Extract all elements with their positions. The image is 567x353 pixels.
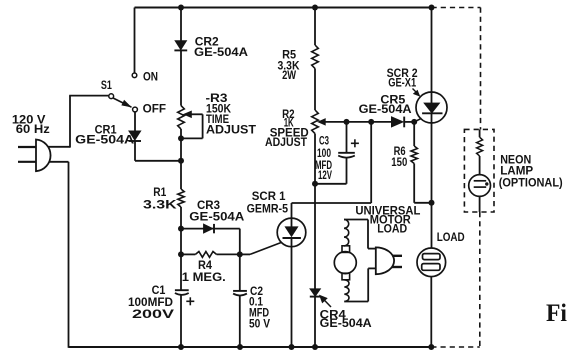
node C2 bottom rail (237, 344, 243, 350)
wire CR3 branch (181, 228, 240, 230)
wire plug top lead (48, 146, 70, 148)
svg-text:GE-504A: GE-504A (320, 316, 372, 330)
AC plug P1 120V (36, 140, 51, 172)
SCR Q1 SCR1 GEMR-5 (277, 218, 306, 247)
switch S1 OFF terminal (133, 107, 138, 112)
svg-text:GE-504A: GE-504A (359, 102, 412, 116)
wire left vertical plug top to S1 (69, 96, 71, 148)
motor plug (376, 247, 394, 274)
node C3 top junction (344, 119, 350, 125)
wire OFF to CR1 (134, 112, 136, 131)
capacitor C2 0.1MFD (233, 290, 247, 292)
svg-text:60 Hz: 60 Hz (16, 122, 50, 136)
svg-text:LOAD: LOAD (377, 221, 407, 235)
svg-text:1 MEG.: 1 MEG. (182, 270, 226, 284)
diode CR5 (391, 117, 403, 128)
R3 wiper loop (191, 113, 203, 115)
wire gate lead to SCR1 (240, 253, 250, 255)
node LOAD bottom rail (428, 344, 434, 350)
switch S1 ON terminal (132, 73, 137, 78)
svg-text:2W: 2W (282, 68, 297, 82)
wire R1 to CR3 node (180, 207, 182, 229)
node CR4 bottom rail (312, 344, 318, 350)
wire gate node to R6 (413, 122, 415, 146)
wire dashed neon to bottom rail (479, 212, 481, 347)
svg-text:3.3K: 3.3K (143, 197, 177, 211)
svg-text:200V: 200V (132, 307, 174, 321)
motor field coil upper (344, 220, 349, 246)
wire junction to R4 node (180, 229, 182, 255)
CR4 leader arrow (322, 298, 331, 307)
node top rail / R5 vertical (312, 5, 318, 11)
svg-text:150: 150 (391, 155, 407, 169)
resistor R6 150 (411, 146, 417, 164)
svg-text:OFF: OFF (143, 101, 166, 115)
wire SCR1 anode horizontal (292, 202, 372, 204)
svg-text:ADJUST: ADJUST (265, 135, 308, 149)
C3 plus sign (351, 142, 359, 144)
motor brush lower (342, 273, 350, 280)
resistor R4 1 MEG (181, 253, 195, 255)
node R2/C3 junction (312, 181, 318, 187)
wire anode riser (370, 122, 372, 203)
potentiometer R3 150K (178, 106, 185, 129)
svg-text:GE-504A: GE-504A (189, 209, 244, 223)
resistor R5 3.3K 2W (312, 45, 319, 69)
plug prong bottom (18, 161, 36, 163)
capacitor C1 100MFD 200V (175, 289, 189, 291)
wire rail to R5 (314, 8, 316, 46)
wire top rail (135, 7, 432, 9)
wire junction to LOAD outlet (431, 203, 433, 248)
wire junction down to CR4 (314, 184, 316, 289)
C1 plus sign (186, 300, 194, 302)
wire CR3 corner down to R4 node (239, 229, 241, 255)
wire R6 bottom (413, 164, 415, 203)
svg-text:ADJUST: ADJUST (206, 122, 257, 136)
wire C3 bottom to R2 vertical (315, 183, 347, 185)
neon lamp NE1 (469, 175, 491, 197)
outlet LOAD (417, 248, 446, 277)
capacitor C3 100MFD 12V (346, 122, 348, 153)
diode CR3 (203, 224, 213, 233)
node SCR2 gate / R6 junction (411, 119, 417, 125)
svg-text:(OPTIONAL): (OPTIONAL) (499, 175, 563, 189)
potentiometer R2 1K (312, 110, 319, 134)
universal motor load - top lead (344, 219, 368, 221)
wire plug bottom lead (49, 161, 69, 163)
motor plug prong bottom (392, 266, 403, 268)
motor bottom lead (344, 301, 368, 303)
node CR3 branch junction (178, 226, 184, 232)
plug prong top (18, 146, 36, 148)
switch S1 pivot terminal (109, 94, 114, 99)
wire ON terminal to top rail (134, 8, 136, 73)
svg-text:50 V: 50 V (249, 316, 270, 330)
wire neon lamp to box bottom (479, 196, 481, 212)
node CR1/main vertical junction (178, 158, 184, 164)
svg-text:ON: ON (143, 69, 158, 83)
SCR Q2 SCR2 GE-X1 (416, 92, 447, 123)
wire speed control line (325, 121, 392, 123)
node R4 branch junction (178, 251, 184, 257)
node anode riser junction (368, 119, 374, 125)
node C1 bottom rail (178, 344, 184, 350)
motor plug prong top (392, 255, 402, 257)
wire R2 bottom to C3 node (314, 134, 316, 184)
motor field coil lower (344, 280, 349, 302)
node top rail / main vertical (178, 5, 184, 11)
wire bottom rail (69, 346, 432, 348)
wire CR5 to SCR2 gate node (404, 121, 414, 123)
node top rail right end (429, 5, 435, 11)
svg-text:Fi: Fi (546, 300, 567, 327)
svg-text:S1: S1 (101, 78, 112, 92)
motor brush upper (342, 246, 350, 253)
wire R4 node to C1 (180, 254, 182, 290)
wire S1 feed (69, 95, 108, 97)
svg-text:GE-504A: GE-504A (194, 45, 248, 59)
wire dashed bottom rail extension (431, 346, 480, 348)
neon lamp dashed enclosure (464, 129, 494, 212)
R3 wiper arrow (184, 111, 192, 118)
diode CR1 (129, 131, 141, 141)
node R4/C2/gate junction (237, 251, 243, 257)
svg-text:GE-X1: GE-X1 (388, 76, 416, 90)
wire CR2 to R3 (180, 50, 182, 105)
motor armature (334, 252, 356, 274)
wire left vertical from plug bottom to bottom rail (68, 162, 70, 348)
wire CR1 to main vertical (134, 141, 136, 161)
wire R5 to R2 (314, 69, 316, 111)
R2 wiper arrow (318, 119, 326, 126)
wire main vertical top segment (180, 8, 182, 41)
wire C2 vertical (239, 254, 241, 291)
wire LOAD to bottom rail (430, 277, 432, 347)
wire gate diagonal to SCR2 (414, 118, 421, 122)
wire R3 to R1 (180, 129, 182, 189)
node R6 / SCR2 cathode / LOAD junction (429, 200, 435, 206)
svg-text:GE-504A: GE-504A (75, 132, 134, 146)
wire dashed top rail extension (432, 7, 481, 9)
svg-text:GEMR-5: GEMR-5 (247, 202, 289, 216)
node R3 bottom junction (178, 135, 184, 141)
switch S1 arm (113, 98, 131, 107)
node SCR1 cathode bottom rail (289, 344, 295, 350)
motor top-right lead (367, 220, 369, 249)
diode CR2 (175, 41, 187, 51)
neon series resistor (479, 129, 481, 137)
diode CR4 (310, 289, 321, 297)
wire dashed down to neon box (480, 8, 482, 130)
svg-text:LOAD: LOAD (437, 230, 465, 244)
resistor R1 3.3K (178, 189, 184, 207)
SCR2 leader arrow (413, 89, 419, 95)
svg-text:12V: 12V (318, 168, 332, 182)
